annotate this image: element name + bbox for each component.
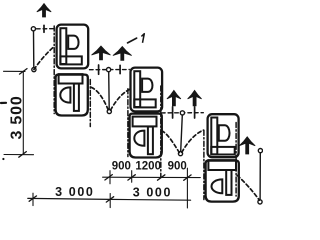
house 1 D-room — [68, 36, 78, 49]
bounce arc off house 3 — [237, 175, 259, 200]
house 3 half-disc door — [212, 179, 223, 193]
house 3 vertical duct — [226, 170, 231, 195]
dim 3500 bottom tick — [19, 152, 27, 158]
arrow A4 above house 3 — [167, 90, 181, 106]
tick b on marker 3 — [194, 107, 196, 118]
svg-text:1200: 1200 — [135, 161, 161, 173]
house 2 L-wall horizontal — [134, 99, 155, 107]
house 2 half-disc door — [134, 131, 144, 146]
house 1 left cut line — [53, 26, 55, 114]
house 2 lower block outline — [130, 114, 162, 158]
bounce vertex circle 1-2 — [107, 109, 111, 113]
extension at 187.4 — [186, 168, 188, 208]
extension at 110 — [109, 171, 111, 184]
svg-text:3 000: 3 000 — [55, 185, 94, 199]
house 3 upper block outline — [208, 114, 239, 157]
bounce arc into house 1 — [34, 46, 55, 69]
left edge artifact dot — [2, 158, 4, 160]
svg-text:3 500: 3 500 — [9, 95, 26, 139]
tick 3000 left — [29, 196, 36, 201]
house 3 right cut line — [235, 123, 237, 197]
house 1 top bar — [59, 74, 83, 83]
svg-text:900: 900 — [112, 160, 131, 172]
house 3 top bar — [208, 160, 236, 170]
drop line D3 — [181, 115, 183, 151]
house 2 upper block outline — [131, 68, 163, 112]
house 2 right cut line — [160, 86, 162, 177]
house 2 D-room — [142, 79, 152, 92]
house 2 top bar — [133, 117, 157, 127]
house 1 L-wall horizontal — [60, 56, 81, 64]
house 1 vertical duct — [74, 84, 79, 111]
section marker line 2 — [90, 69, 130, 71]
house 1 lower block outline — [56, 75, 88, 116]
tick a on marker 2 — [98, 65, 100, 74]
dim 3500 top tick — [20, 69, 28, 75]
section marker line 3 — [162, 112, 204, 114]
bounce arc up to house 3 — [182, 130, 204, 152]
house 1 half-disc door — [60, 87, 70, 102]
node circle bottom-left — [32, 68, 36, 72]
house 1 right cut line — [89, 80, 91, 127]
arrow A6 right of house 3 — [239, 137, 255, 154]
extension at 131.7 — [131, 171, 133, 183]
house 3 L-wall horizontal — [211, 147, 234, 155]
house 1 L-wall vertical — [60, 28, 66, 64]
house 3 D-room — [219, 125, 230, 141]
house 1 upper block outline — [57, 25, 89, 69]
bounce vertex circle 2-3 — [178, 152, 182, 156]
leader line to label 1 — [128, 38, 137, 43]
svg-text:900: 900 — [168, 161, 187, 173]
node circle top-left — [31, 27, 35, 31]
dim 3500 vertical line — [22, 71, 24, 154]
node circle on marker 3 — [180, 111, 184, 115]
section marker line 1 (dash-dot with circle and tick) — [37, 28, 55, 30]
svg-text:3 000: 3 000 — [133, 186, 172, 200]
tick a on marker 3 — [172, 107, 174, 118]
tick 1200/900 — [158, 175, 165, 180]
bounce arc down from house 2 — [162, 131, 180, 153]
arrow A1 above house 1 — [37, 4, 51, 18]
dim line 3000 bottom — [28, 198, 191, 200]
left edge artifact dash — [1, 102, 6, 104]
dim 3500 top extension — [4, 70, 26, 72]
node circle top-right — [258, 149, 262, 153]
dim 3500 bottom extension — [4, 154, 34, 156]
label 1 of section — [141, 34, 144, 43]
tick 900 right — [184, 175, 191, 180]
arrow A3 above house 2 — [113, 47, 132, 61]
tick 900 left — [105, 175, 112, 180]
house 3 L-wall vertical — [211, 118, 217, 155]
drop line D4 — [259, 153, 261, 200]
drop line D1 — [33, 31, 35, 67]
bounce arc up to house 2 — [111, 89, 130, 110]
node circle bottom-right — [258, 200, 262, 204]
arrow A2 above house 2 — [92, 46, 111, 60]
house 2 L-wall vertical — [134, 71, 140, 107]
extension at 33 — [32, 193, 34, 205]
tick b on marker 2 — [119, 65, 121, 73]
arrow A5 above house 3 — [188, 90, 202, 106]
node circle on marker 2 — [107, 68, 111, 72]
house 2 vertical duct — [148, 127, 153, 155]
drop line D2 — [108, 72, 111, 110]
tick 3000 middle — [106, 197, 113, 202]
dim line 900-1200-900 — [103, 176, 201, 178]
tick on marker 1 — [43, 25, 45, 32]
bounce arc down from house 1 — [91, 87, 108, 110]
tick 900/1200 — [128, 175, 135, 180]
house 3 left cut line — [203, 130, 205, 199]
house 3 lower block outline — [206, 161, 239, 202]
house 2 left cut line — [127, 89, 129, 157]
extension at 110 lower — [109, 194, 111, 208]
